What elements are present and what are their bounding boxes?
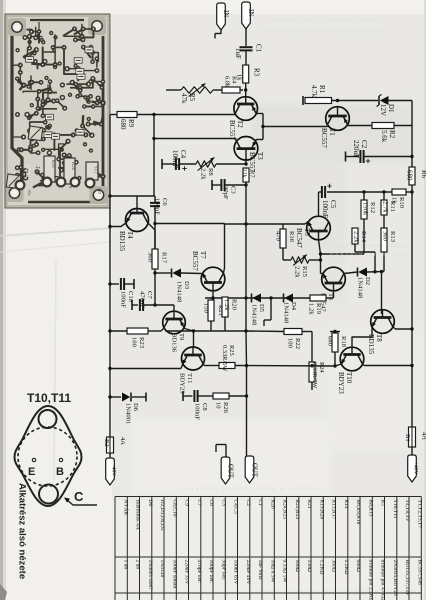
svg-text:ST2: ST2 — [93, 166, 98, 174]
svg-text:100nF: 100nF — [171, 150, 179, 168]
svg-text:R13: R13 — [389, 231, 396, 243]
svg-text:100nF: 100nF — [120, 291, 127, 308]
svg-text:1N4148: 1N4148 — [357, 277, 364, 299]
svg-text:BC557: BC557 — [320, 128, 328, 148]
svg-text:10: 10 — [215, 402, 222, 409]
svg-text:R26: R26 — [269, 500, 275, 509]
svg-text:R11: R11 — [389, 201, 396, 212]
svg-text:C2: C2 — [245, 500, 251, 507]
svg-text:D3: D3 — [183, 281, 190, 290]
svg-text:100u: 100u — [24, 164, 30, 177]
svg-text:R7: R7 — [249, 170, 256, 178]
svg-text:C9: C9 — [184, 500, 190, 507]
svg-text:1.2k: 1.2k — [308, 303, 315, 315]
svg-text:BC547: BC547 — [295, 228, 303, 248]
svg-text:R26: R26 — [51, 160, 56, 168]
svg-text:100pF ker.: 100pF ker. — [208, 560, 214, 584]
svg-text:C5: C5 — [329, 200, 337, 209]
svg-text:R1: R1 — [318, 85, 326, 94]
svg-text:680Ω: 680Ω — [355, 560, 361, 572]
svg-text:150: 150 — [203, 303, 210, 314]
svg-text:680: 680 — [406, 170, 414, 181]
svg-text:D1: D1 — [387, 104, 395, 113]
svg-text:30pF ker.: 30pF ker. — [220, 560, 226, 581]
svg-text:IN: IN — [222, 10, 229, 17]
svg-text:R12: R12 — [369, 202, 376, 213]
svg-text:R3: R3 — [253, 68, 261, 77]
svg-text:1N4148: 1N4148 — [159, 560, 165, 578]
svg-text:100nF 63V: 100nF 63V — [233, 560, 239, 585]
svg-text:OUT: OUT — [227, 464, 234, 479]
svg-text:C: C — [74, 489, 84, 504]
svg-text:NYÁK: NYÁK — [122, 500, 130, 516]
svg-text:BD136: BD136 — [171, 333, 178, 353]
svg-text:R5: R5 — [188, 93, 196, 102]
svg-text:OUT: OUT — [251, 463, 258, 478]
svg-text:360Ω: 360Ω — [331, 560, 337, 572]
svg-text:1uF: 1uF — [234, 48, 242, 59]
svg-text:2.2k: 2.2k — [294, 266, 301, 278]
svg-text:0.33Ω 5W: 0.33Ω 5W — [282, 560, 288, 584]
svg-text:-40V: -40V — [110, 465, 116, 476]
svg-text:2N3055,BDY23: 2N3055,BDY23 — [392, 560, 398, 596]
svg-text:1.2k: 1.2k — [223, 299, 230, 311]
svg-text:C4,C5: C4,C5 — [233, 500, 239, 514]
svg-text:+40: +40 — [97, 187, 102, 194]
svg-text:R9: R9 — [127, 119, 135, 128]
svg-text:R21: R21 — [306, 500, 312, 509]
svg-text:T10,T11: T10,T11 — [27, 391, 71, 405]
svg-text:R19: R19 — [315, 303, 322, 315]
svg-text:trimmer pot 2.2KΩ: trimmer pot 2.2KΩ — [367, 560, 373, 600]
svg-text:R13,R17: R13,R17 — [331, 500, 337, 520]
svg-text:100nF: 100nF — [321, 200, 329, 218]
svg-text:680: 680 — [327, 336, 334, 347]
svg-text:lɒnƨƨɒup ɘƨɘlɘvɘn ʞɘn ɒ ƨɘʞɘnq: lɒnƨƨɒup ɘƨɘlɘvɘn ʞɘn ɒ ƨɘʞɘnqɘɿ ɒ ʞoƨ — [264, 27, 384, 34]
svg-text:12V: 12V — [379, 104, 387, 116]
svg-text:+6v: +6v — [27, 189, 32, 196]
svg-text:B1: B1 — [404, 434, 411, 442]
svg-text:R4: R4 — [231, 76, 238, 84]
svg-text:E: E — [28, 466, 35, 478]
svg-text:T3: T3 — [256, 152, 264, 160]
svg-text:R25: R25 — [228, 345, 235, 356]
svg-text:2.2k: 2.2k — [200, 168, 207, 180]
svg-text:D2,D3,D4,D5: D2,D3,D4,D5 — [159, 500, 165, 531]
svg-text:100: 100 — [131, 337, 138, 348]
svg-text:C1: C1 — [255, 44, 263, 53]
svg-text:4A: 4A — [119, 437, 126, 445]
svg-text:T8: T8 — [375, 334, 383, 342]
svg-text:C7: C7 — [196, 500, 202, 507]
svg-text:100: 100 — [287, 338, 294, 349]
svg-text:ɘƨɘlɘvɘn ʞɘnqɘɿ ɒ ƨoʞɒƨƨɒup ɿɘ: ɘƨɘlɘvɘn ʞɘnqɘɿ ɒ ƨoʞɒƨƨɒup ɿɘdmɘ — [272, 17, 378, 24]
svg-text:D2: D2 — [364, 277, 371, 285]
svg-text:R14: R14 — [343, 500, 349, 509]
svg-text:BD135: BD135 — [118, 231, 126, 252]
svg-text:T7: T7 — [199, 251, 207, 259]
svg-text:J 35: J 35 — [34, 166, 40, 176]
svg-text:R26: R26 — [222, 402, 229, 414]
svg-text:1N4148: 1N4148 — [176, 281, 183, 303]
svg-text:2.2KΩ: 2.2KΩ — [343, 560, 349, 575]
svg-text:R17: R17 — [161, 252, 168, 264]
svg-text:IN: IN — [247, 9, 254, 16]
svg-text:T10: T10 — [345, 372, 353, 384]
svg-text:T1,T2,T3,T7: T1,T2,T3,T7 — [416, 500, 422, 529]
svg-text:470pF ker.: 470pF ker. — [196, 560, 202, 584]
svg-text:R8,R15: R8,R15 — [367, 500, 373, 517]
svg-text:BC557: BC557 — [228, 120, 236, 140]
svg-text:R24,R25: R24,R25 — [282, 500, 288, 520]
svg-text:1N4148: 1N4148 — [251, 304, 258, 326]
svg-text:R8: R8 — [207, 168, 214, 176]
svg-text:(oqƨnɒʜ) ɿɘʞɒɘqƨ ʜɘƨƨɘ: (oqƨnɒʜ) ɿɘʞɒɘqƨ ʜɘƨƨɘ — [320, 242, 408, 249]
svg-text:1.2KΩ: 1.2KΩ — [318, 560, 324, 575]
svg-text:C6: C6 — [208, 500, 214, 507]
svg-text:R2: R2 — [388, 130, 396, 139]
svg-text:R22,R23: R22,R23 — [294, 500, 300, 520]
svg-text:C8,C10: C8,C10 — [171, 500, 177, 517]
svg-text:D4: D4 — [290, 302, 297, 311]
svg-text:100Ω: 100Ω — [294, 560, 300, 572]
svg-text:R24: R24 — [71, 162, 76, 170]
svg-text:100nF: 100nF — [194, 403, 201, 420]
svg-text:T4: T4 — [126, 231, 134, 239]
svg-text:2.7k: 2.7k — [382, 201, 389, 213]
svg-text:T11: T11 — [186, 373, 193, 383]
svg-text:22k: 22k — [241, 168, 248, 179]
svg-text:T2: T2 — [236, 120, 244, 128]
svg-text:470: 470 — [275, 231, 282, 242]
svg-text:ʜɘʞƨɘɿɘvɘn ʞɘnqɘ: ʜɘʞƨɘɿɘvɘn ʞɘnqɘ — [330, 251, 406, 258]
svg-text:1N4148: 1N4148 — [283, 302, 290, 324]
svg-text:R19,R20: R19,R20 — [318, 500, 324, 520]
svg-text:150Ω: 150Ω — [306, 560, 312, 572]
svg-text:4A: 4A — [421, 432, 426, 440]
svg-text:100nF sibatit: 100nF sibatit — [171, 560, 177, 589]
svg-text:BDY23: BDY23 — [337, 372, 345, 394]
svg-text:6.8k: 6.8k — [223, 76, 230, 88]
svg-text:47k: 47k — [180, 93, 188, 104]
svg-text:T10,T11: T10,T11 — [392, 500, 398, 519]
svg-text:1N4001: 1N4001 — [125, 403, 132, 424]
svg-text:360: 360 — [382, 231, 389, 242]
svg-text:trimmer pot 47KΩ: trimmer pot 47KΩ — [380, 560, 386, 600]
svg-text:220uF 35V: 220uF 35V — [184, 560, 190, 585]
svg-text:T4,T8,T9: T4,T8,T9 — [404, 500, 410, 521]
svg-text:T5: T5 — [303, 228, 311, 236]
svg-text:D6: D6 — [147, 500, 153, 507]
svg-text:C8: C8 — [201, 403, 208, 411]
svg-text:0.33R/5W: 0.33R/5W — [221, 345, 228, 372]
svg-text:R6,R9,R18: R6,R9,R18 — [355, 500, 361, 525]
svg-text:R24: R24 — [318, 362, 325, 373]
svg-text:R20: R20 — [231, 299, 238, 311]
svg-text:220uF 40V: 220uF 40V — [245, 560, 251, 585]
svg-text:R15: R15 — [301, 266, 308, 278]
svg-text:C4: C4 — [179, 150, 187, 159]
svg-text:D5: D5 — [258, 304, 265, 313]
svg-text:C10: C10 — [127, 291, 134, 303]
svg-text:BC557,548: BC557,548 — [416, 560, 422, 585]
svg-text:R23: R23 — [138, 337, 145, 349]
svg-text:30pF: 30pF — [222, 186, 229, 200]
svg-text:C3: C3 — [220, 500, 226, 507]
svg-text:+40V: +40V — [412, 462, 418, 474]
svg-text:220uF: 220uF — [352, 140, 360, 158]
svg-text:1 db: 1 db — [122, 560, 128, 570]
svg-text:B: B — [56, 466, 64, 478]
svg-text:C3: C3 — [230, 186, 237, 194]
svg-text:680: 680 — [119, 119, 127, 130]
svg-text:BDY23: BDY23 — [179, 373, 186, 394]
svg-text:D6: D6 — [132, 403, 139, 412]
svg-text:T9: T9 — [178, 333, 185, 341]
svg-text:R10: R10 — [398, 197, 405, 209]
svg-text:4.7k: 4.7k — [310, 85, 318, 98]
svg-text:B2: B2 — [103, 439, 110, 447]
svg-text:360: 360 — [147, 252, 154, 263]
svg-text:R6: R6 — [420, 170, 426, 179]
svg-text:T1: T1 — [328, 128, 336, 136]
svg-text:R16: R16 — [288, 231, 295, 243]
svg-text:C2: C2 — [360, 140, 368, 149]
svg-text:5.6k: 5.6k — [380, 130, 388, 143]
svg-text:1uF fólia: 1uF fólia — [257, 560, 264, 581]
svg-text:10Ω 0.5W: 10Ω 0.5W — [269, 560, 275, 584]
svg-text:Alkatrész alsó nézete: Alkatrész alsó nézete — [17, 483, 28, 579]
svg-text:C6: C6 — [161, 198, 168, 206]
svg-text:C1: C1 — [257, 500, 263, 507]
svg-text:BD135,137,139: BD135,137,139 — [404, 560, 410, 595]
svg-text:C7: C7 — [146, 291, 153, 299]
svg-text:150k: 150k — [362, 202, 369, 216]
svg-text:1N4001-4007: 1N4001-4007 — [147, 560, 153, 591]
svg-text:R18: R18 — [340, 336, 347, 348]
svg-text:Biztosíték 4A: Biztosíték 4A — [135, 500, 141, 530]
svg-text:R22: R22 — [294, 338, 301, 349]
svg-text:BC557: BC557 — [191, 251, 199, 271]
svg-text:2 db: 2 db — [135, 560, 141, 570]
svg-text:R5: R5 — [380, 500, 386, 507]
